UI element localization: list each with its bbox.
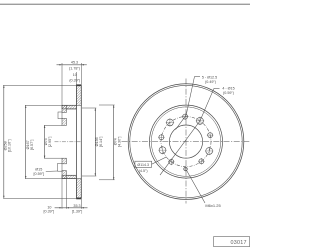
svg-text:Ø15: Ø15	[35, 168, 42, 172]
disc lower hatched section	[76, 179, 81, 199]
dimension dia 167	[25, 104, 62, 106]
hat inner surface bottom	[66, 174, 76, 176]
center bore circle	[169, 125, 202, 158]
lug hole dia 12.5 #2	[208, 133, 213, 138]
vertical centerline	[185, 79, 187, 204]
hole dia 15 #4	[167, 119, 174, 126]
lug hole recess on flange face	[58, 112, 62, 119]
label dia 15 hole	[46, 170, 58, 172]
lug hole dia 12.5 #5	[159, 135, 164, 140]
top border line	[0, 4, 250, 5]
svg-text:(0.49"): (0.49")	[205, 80, 216, 84]
label 5-dia12.5	[195, 76, 201, 78]
hat upper wall hatched	[62, 105, 76, 109]
section centerline	[55, 141, 81, 143]
hole dia 15 #2	[206, 148, 213, 155]
label 4-dia15	[214, 87, 220, 89]
lug hole dia 12.5 #3	[199, 159, 204, 164]
bolt circle dia 114.3	[161, 117, 211, 167]
svg-text:10: 10	[73, 73, 77, 77]
disc upper hatched section	[76, 85, 81, 105]
dimension dia 258	[3, 84, 76, 86]
outer chamfer circle	[130, 85, 242, 197]
svg-text:[1.39"]: [1.39"]	[72, 209, 83, 213]
svg-text:Ø114.3: Ø114.3	[137, 163, 149, 167]
svg-text:35.3: 35.3	[73, 204, 80, 208]
hat circle outer	[150, 105, 223, 178]
flange hatched above lug hole	[62, 105, 66, 112]
svg-text:[6.57"]: [6.57"]	[30, 140, 34, 151]
hat outer surface bottom	[62, 178, 76, 180]
svg-text:[10.16"]: [10.16"]	[8, 140, 12, 153]
svg-text:[2.95"]: [2.95"]	[48, 137, 52, 148]
svg-text:(4.5"): (4.5")	[139, 169, 148, 173]
hole dia 15 #3	[159, 147, 166, 154]
hat circle inner	[151, 107, 220, 176]
hole dia 15 #1	[197, 117, 204, 124]
svg-text:[6.14"]: [6.14"]	[99, 137, 103, 148]
svg-text:45.3: 45.3	[71, 61, 78, 65]
svg-text:M6x1.25: M6x1.25	[205, 203, 221, 208]
dimension dia 156	[82, 107, 96, 109]
15mm hole recess on flange face	[58, 163, 62, 171]
flange hatched below bore	[62, 158, 66, 164]
flange hatched bottom	[62, 171, 66, 179]
hat outer surface top	[62, 104, 76, 106]
svg-text:(0.59"): (0.59")	[223, 91, 234, 95]
svg-text:(0.39"): (0.39")	[69, 78, 80, 82]
svg-text:[4.30"]: [4.30"]	[117, 137, 121, 148]
horizontal centerline	[122, 141, 250, 143]
lug hole dia 12.5 #4	[169, 159, 174, 164]
disc right face line	[80, 85, 82, 198]
svg-text:4 - Ø15: 4 - Ø15	[222, 87, 234, 91]
outer circle dia 258	[128, 84, 244, 200]
flange hatched below lug hole	[62, 118, 66, 125]
hat lower wall hatched	[62, 175, 76, 178]
svg-text:[0.39"]: [0.39"]	[44, 210, 55, 214]
label M6x1.25	[187, 170, 205, 203]
set screw hole M6x1.25	[184, 167, 187, 170]
disc OD top edge	[76, 84, 81, 86]
boxed label dia 114.3 bolt circle	[135, 161, 152, 167]
lug hole dia 12.5 #1	[183, 114, 188, 119]
dimension dia 75	[44, 124, 62, 126]
hat inner surface top	[66, 108, 76, 110]
dimension dia 74	[99, 104, 115, 106]
svg-text:03017: 03017	[231, 240, 247, 246]
svg-text:(1.78"): (1.78")	[69, 67, 80, 71]
dimension 10 and 35.3 (bottom)	[61, 179, 63, 209]
title block	[214, 237, 250, 247]
svg-text:5 - Ø12.5: 5 - Ø12.5	[202, 75, 217, 79]
dimension 45.3 and 10 (top)	[61, 63, 63, 105]
svg-text:[0.59"]: [0.59"]	[34, 172, 45, 176]
disc OD bottom edge	[76, 197, 81, 199]
disc left face line	[75, 85, 77, 198]
